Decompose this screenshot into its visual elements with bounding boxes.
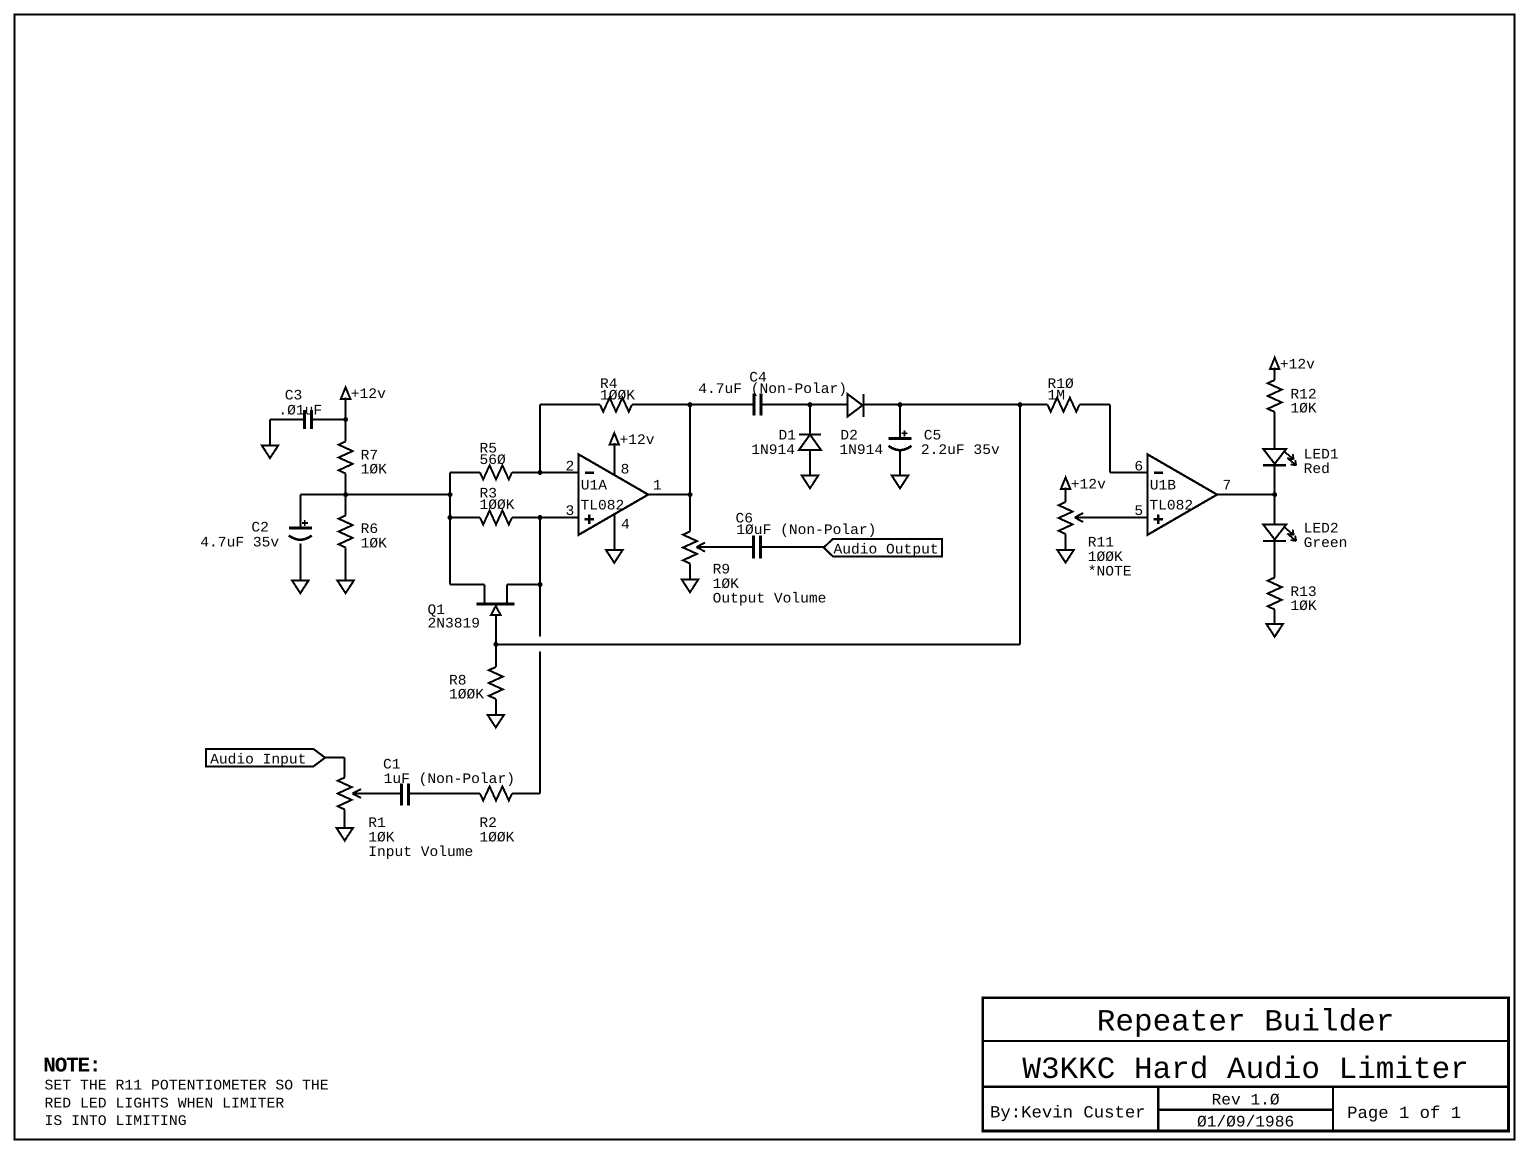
ground R6 [337, 581, 353, 594]
resistor R7 [339, 442, 353, 474]
svg-text:W3KKC Hard Audio Limiter: W3KKC Hard Audio Limiter [1022, 1053, 1468, 1088]
R1 wiper arm [353, 789, 362, 798]
svg-text:1ØuF (Non-Polar): 1ØuF (Non-Polar) [736, 523, 876, 539]
wire gate to R8 [495, 644, 497, 667]
ground R13 [1267, 624, 1283, 637]
svg-text:+12v: +12v [1280, 358, 1315, 374]
svg-text:C1: C1 [383, 757, 401, 773]
wire C5 to ground [899, 451, 901, 476]
resistor R8 [489, 667, 503, 699]
svg-text:.Ø1uF: .Ø1uF [278, 403, 322, 419]
wire LED1 to LED2 [1274, 465, 1276, 524]
wire C3 right [312, 419, 346, 421]
ground U1A pin 4 [606, 550, 622, 563]
svg-text:2: 2 [566, 459, 575, 475]
wire R4 left drop [539, 405, 541, 473]
svg-text:1N914: 1N914 [751, 443, 795, 459]
wire gate feedback [496, 643, 1020, 645]
+12v power arrow R12 [1270, 358, 1279, 370]
wire +12v to R11 [1065, 487, 1067, 502]
junction gate/R8 node [493, 642, 498, 647]
junction pin3 node [538, 515, 543, 520]
capacitor C3 [303, 410, 306, 429]
node Audio Input flag [206, 749, 325, 767]
+12v power arrow U1A [610, 433, 619, 445]
capacitor C5 [899, 405, 901, 439]
resistor R10 [1020, 404, 1048, 406]
LED1 [1263, 449, 1286, 464]
svg-text:1: 1 [653, 479, 662, 495]
svg-text:C2: C2 [251, 521, 269, 537]
wire R9 to ground [689, 564, 691, 580]
svg-text:2N3819: 2N3819 [428, 617, 481, 633]
+12v power arrow R11 [1061, 477, 1070, 489]
wire LED2 to R13 [1274, 541, 1276, 578]
svg-text:Green: Green [1304, 536, 1348, 552]
wire Q1 source down [539, 585, 541, 637]
ground D1 [802, 476, 818, 489]
diode D1 [809, 405, 811, 435]
svg-text:+12v: +12v [620, 433, 655, 449]
wire pin 4 [613, 514, 615, 550]
potentiometer R11 [1059, 502, 1073, 534]
svg-text:Page 1 of 1: Page 1 of 1 [1347, 1105, 1461, 1124]
wire feedback riser [1019, 405, 1021, 645]
title block [983, 998, 1509, 1131]
svg-text:6: 6 [1134, 459, 1143, 475]
resistor R12 [1268, 380, 1282, 412]
wire R8 to ground [495, 699, 497, 715]
ground C3 [262, 446, 278, 459]
wire R1 to ground [344, 810, 346, 829]
svg-text:Ø1/Ø9/1986: Ø1/Ø9/1986 [1197, 1114, 1294, 1132]
wire source column lower [539, 652, 541, 794]
junction D1 node [808, 402, 813, 407]
svg-text:D1: D1 [779, 428, 797, 444]
wire to C4 [690, 404, 754, 406]
svg-text:*NOTE: *NOTE [1088, 564, 1132, 580]
junction LED node [1272, 492, 1277, 497]
op-amp U1A [579, 454, 649, 535]
junction R3 left [448, 515, 453, 520]
ground R8 [488, 715, 504, 728]
svg-text:By:Kevin Custer: By:Kevin Custer [990, 1104, 1146, 1123]
svg-text:4.7uF (Non-Polar): 4.7uF (Non-Polar) [698, 382, 847, 398]
svg-text:1ØØK: 1ØØK [479, 831, 514, 847]
wire flag to R1 [325, 757, 345, 759]
svg-text:RED LED LIGHTS WHEN LIMITER: RED LED LIGHTS WHEN LIMITER [45, 1096, 285, 1112]
LED2 [1263, 525, 1286, 540]
+12v power arrow R7 [341, 387, 350, 399]
potentiometer R9 [683, 532, 697, 564]
svg-text:1ØØK: 1ØØK [480, 498, 515, 514]
capacitor C1 [400, 784, 403, 806]
wire pin3 to Q1 source [539, 518, 541, 585]
potentiometer R1 [338, 778, 352, 810]
wire R11 to ground [1065, 534, 1067, 550]
svg-text:4: 4 [621, 518, 630, 534]
svg-text:1ØØK: 1ØØK [449, 688, 484, 704]
capacitor C4 [753, 394, 756, 416]
svg-text:U1B: U1B [1150, 479, 1177, 495]
svg-text:1ØK: 1ØK [361, 463, 388, 479]
svg-text:1uF (Non-Polar): 1uF (Non-Polar) [384, 772, 515, 788]
wire bias rail [300, 494, 450, 496]
svg-text:1N914: 1N914 [839, 443, 883, 459]
junction C3/+12v node [343, 417, 348, 422]
svg-text:3: 3 [566, 504, 575, 520]
transistor Q1 2N3819 JFET [450, 584, 484, 586]
svg-text:+12v: +12v [1071, 477, 1106, 493]
wire R7 to R6 [345, 474, 347, 516]
diode D2 [847, 394, 862, 417]
wire R10 down [1109, 405, 1111, 473]
wire pin 1 output [648, 494, 690, 496]
wire pin 6 [1110, 471, 1147, 473]
wire down to R1 [344, 758, 346, 778]
wire C3 left [270, 419, 305, 421]
resistor R13 [1268, 578, 1282, 610]
wire C1 to R2 [409, 793, 481, 795]
svg-text:D2: D2 [840, 428, 858, 444]
svg-text:+12v: +12v [351, 387, 386, 403]
ground R1 [337, 828, 353, 841]
ground R9 [682, 580, 698, 593]
svg-text:56Ø: 56Ø [480, 453, 507, 469]
svg-text:Rev 1.Ø: Rev 1.Ø [1212, 1091, 1280, 1109]
svg-text:SET THE R11 POTENTIOMETER SO T: SET THE R11 POTENTIOMETER SO THE [45, 1079, 329, 1095]
capacitor C6 [752, 536, 755, 559]
junction feedback node [1018, 402, 1023, 407]
svg-text:1ØK: 1ØK [361, 536, 388, 552]
ground C2 [292, 581, 308, 594]
svg-text:C5: C5 [924, 428, 942, 444]
junction Q1 source node [538, 582, 543, 587]
op-amp U1B [1147, 454, 1217, 535]
svg-text:Audio Input: Audio Input [210, 752, 306, 768]
resistor R6 [339, 516, 353, 548]
ground R11 [1057, 550, 1073, 563]
wire D2 to R10 [864, 404, 1021, 406]
svg-text:1ØØK: 1ØØK [600, 388, 635, 404]
wire R6 to ground [345, 548, 347, 581]
junction pin2 node [538, 470, 543, 475]
svg-text:C3: C3 [285, 389, 303, 405]
svg-text:Red: Red [1304, 462, 1330, 478]
wire C4 to D2 [761, 404, 847, 406]
junction bias/R5R3 [448, 492, 453, 497]
svg-text:1ØK: 1ØK [1290, 402, 1317, 418]
junction C5 node [898, 402, 903, 407]
wire output column [689, 405, 691, 532]
svg-text:2.2uF 35v: 2.2uF 35v [921, 443, 1000, 459]
wire node column [449, 472, 451, 584]
svg-text:TL082: TL082 [581, 498, 625, 514]
junction R4/C4 node [688, 402, 693, 407]
R9 wiper arm [697, 543, 706, 552]
resistor R4 [540, 404, 600, 406]
wire pin 8 [613, 443, 615, 475]
wire C2 to ground [299, 544, 301, 581]
wire to C2 [299, 495, 301, 528]
wire C3 to ground [269, 420, 271, 446]
wire +12v to R12 [1274, 368, 1276, 380]
wire Q1 gate [495, 615, 497, 644]
junction pin 1 node [688, 492, 693, 497]
svg-text:NOTE:: NOTE: [43, 1055, 100, 1078]
wire D1 to ground [809, 450, 811, 476]
wire R12 to LED1 [1274, 412, 1276, 449]
wire R13 to ground [1274, 610, 1276, 625]
junction bias node [343, 492, 348, 497]
svg-text:1ØK: 1ØK [1290, 599, 1317, 615]
svg-text:4.7uF 35v: 4.7uF 35v [200, 536, 279, 552]
svg-text:Output Volume: Output Volume [713, 592, 827, 608]
ground C5 [892, 476, 908, 489]
svg-text:Repeater Builder: Repeater Builder [1097, 1005, 1395, 1040]
wire C6 to flag [761, 546, 824, 548]
svg-text:Audio Output: Audio Output [834, 543, 939, 559]
resistor R5 [450, 471, 480, 473]
svg-text:7: 7 [1223, 479, 1232, 495]
R11 wiper to pin 5 [1075, 513, 1084, 522]
wire +12v to R7 [345, 397, 347, 441]
svg-text:IS INTO LIMITING: IS INTO LIMITING [45, 1114, 187, 1130]
wire pin 7 output [1217, 494, 1275, 496]
svg-text:U1A: U1A [581, 479, 608, 495]
resistor R3 [450, 517, 480, 519]
svg-text:8: 8 [621, 463, 630, 479]
node Audio Output flag [824, 539, 942, 557]
resistor R2 [480, 787, 512, 801]
svg-text:1M: 1M [1048, 389, 1066, 405]
svg-text:Input Volume: Input Volume [368, 845, 473, 861]
capacitor C2 [289, 527, 312, 530]
svg-text:TL082: TL082 [1149, 498, 1193, 514]
